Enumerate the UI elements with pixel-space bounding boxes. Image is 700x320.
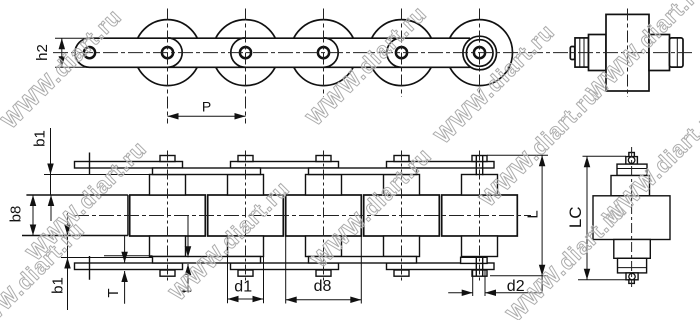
cotter tip bottom (629, 280, 635, 284)
inner plate strip (bottom) x308.5-416.5 (309, 257, 417, 264)
bottom-right vertical centerline (631, 147, 633, 287)
bushing at pin P4 (plan) (306, 175, 342, 196)
ring divider lines (580, 38, 678, 67)
right ring stack (670, 38, 684, 67)
pin P1 (plan, line) (89, 153, 91, 280)
d8 extension lines (286, 236, 362, 304)
left ring stack (575, 38, 589, 67)
L extension lines (487, 155, 548, 275)
right bushing (649, 35, 670, 71)
vertical centerline at pin P5 (401, 9, 403, 98)
inner plate strip (top) x152.5-260.5 (153, 168, 261, 175)
roller R4 (plan rect) (286, 195, 362, 236)
roller R3 (side view circle) (213, 20, 279, 86)
dimension h2 extension lines (55, 38, 89, 67)
top-right vertical centerline (627, 9, 629, 98)
roller R5 (side view circle) (369, 20, 435, 86)
cotter pin holes (628, 157, 635, 164)
T arrows (outer plate thickness) (124, 236, 126, 304)
top view: chain side elevation (135, 20, 513, 86)
roller R4 (side view circle) (291, 20, 357, 86)
svg-text:d8: d8 (314, 278, 332, 295)
pin P6 vertical centerline (plan) (479, 151, 481, 282)
bushing top (611, 176, 650, 196)
LC dimension line (586, 156, 588, 279)
svg-text:b8: b8 (7, 206, 24, 223)
bottom-right view: pin assembly cross-section (593, 153, 670, 284)
pin P2 cap bottom (plan) (160, 270, 175, 276)
pin P4 cap top (plan) (316, 156, 331, 162)
b1 bottom extension line (61, 257, 153, 259)
vertical centerline at pin P2 (167, 9, 169, 124)
pin P4 cap bottom (plan) (316, 270, 331, 276)
svg-text:LC: LC (566, 206, 585, 228)
bushing at pin P2 (plan) (150, 175, 186, 196)
pin P4 vertical centerline (plan) (323, 151, 325, 282)
bottom cap (626, 273, 638, 280)
washer plate at pin P6 (bottom) (461, 257, 488, 263)
bushing circle outer at pin 6 (463, 36, 497, 70)
bushing at pin P5 (plan) (384, 175, 420, 196)
cotter tip top (629, 153, 635, 158)
pin P3 cap top (plan) (238, 156, 253, 162)
svg-text:P: P (202, 99, 211, 115)
roller R6 (side view circle) (447, 20, 513, 86)
bottom view horizontal centerline (74, 215, 531, 217)
pin P6 ring (side view) (474, 47, 485, 58)
pin P4 ring (side view) (318, 47, 329, 58)
bushing at pin P6 (plan) (462, 175, 498, 196)
plate end cap arc at pin x=323.5 (324, 38, 339, 67)
pin P5 cap bottom (plan) (394, 270, 409, 276)
roller R6 (plan rect) (442, 195, 518, 236)
left end link bar (plan) (22, 195, 128, 236)
svg-text:T: T (105, 288, 122, 297)
b1 bottom line with arrows (67, 213, 69, 310)
pin P5 vertical centerline (plan) (401, 151, 403, 282)
pin P5 ring (side view) (396, 47, 407, 58)
pin P3 ring (side view) (240, 47, 251, 58)
plate end cap arc at pin x=167.5 (168, 38, 183, 67)
LC extension lines (578, 156, 626, 279)
d2 dimension line (448, 292, 542, 294)
plate end cap arc at pin x=245.5 (231, 38, 246, 67)
b1 top extension line (44, 174, 153, 176)
t extension line (104, 255, 153, 257)
d1 extension lines (228, 257, 264, 304)
outer plate strip (bottom) x386.5-494 (387, 263, 495, 270)
vertical centerline at pin P3 (245, 9, 247, 124)
washer divider lines (617, 169, 647, 268)
d1 dimension line (228, 298, 264, 300)
roller R3 (plan rect) (208, 195, 284, 236)
dimension P line (168, 115, 246, 117)
t arrows (inner plate thickness) (187, 216, 189, 292)
bushing bottom (614, 240, 651, 259)
top-right view: roller-bushing-pin assembly (570, 14, 683, 91)
svg-text:b1: b1 (49, 277, 66, 294)
pin P2 cap top (plan) (160, 156, 175, 162)
inner plate strip (bottom) x152.5-260.5 (153, 257, 261, 264)
svg-text:h2: h2 (34, 44, 51, 61)
bushing circle inner at pin 6 (466, 40, 493, 67)
outer plate strip (top) x386.5-494 (387, 162, 495, 169)
top cap (626, 157, 638, 165)
roller R2 (plan rect) (130, 195, 206, 236)
d8 dimension line (286, 299, 362, 301)
pin P5 cap top (plan) (394, 156, 409, 162)
washer pair bottom (618, 258, 647, 273)
roller R5 (plan rect) (364, 195, 440, 236)
pin P2 ring (side view) (162, 47, 173, 58)
roller (rect) (606, 14, 649, 91)
pin P6 cap top (plan) (472, 156, 487, 162)
left end cap of pin (570, 47, 575, 60)
plate end cap arc at pin x=401.5 (387, 38, 402, 67)
horizontal centerline of chain (full) (53, 52, 692, 54)
outer plate strip (bottom) x230.5-338.5 (231, 263, 339, 270)
roller R2 (side view circle) (135, 20, 201, 86)
pin P3 cap bottom (plan) (238, 270, 253, 276)
outer plate strip (top) x230.5-338.5 (231, 162, 339, 169)
inner plate strip (top) x308.5-416.5 (309, 168, 417, 175)
svg-text:b1: b1 (31, 130, 48, 147)
vertical centerline at pin P6 (479, 9, 481, 98)
roller (cross-section) (593, 196, 670, 240)
link plate band (side view) (75, 38, 470, 67)
pin P1 ring (side view) (84, 47, 95, 58)
dimension h2 arrow line (61, 38, 63, 67)
left bushing (589, 35, 607, 71)
pin P2 vertical centerline (plan) (167, 151, 169, 282)
svg-text:d1: d1 (234, 279, 252, 296)
pin P6 shaft edges (plan) (476, 156, 482, 277)
b1 top dimension line (50, 128, 53, 221)
vertical centerline at pin P4 (323, 9, 325, 98)
bushing at pin P3 (plan) (228, 175, 264, 196)
d2 extension lines (473, 271, 485, 297)
pin P3 vertical centerline (plan) (245, 151, 247, 282)
washer pair top (617, 164, 647, 175)
pin P6 cap bottom (plan) (472, 270, 487, 276)
outer plate strip (bottom) x74.5-182.5 (75, 263, 183, 270)
outer plate strip (top) x74.5-182.5 (75, 162, 183, 169)
svg-text:L: L (525, 210, 542, 218)
L dimension line (541, 155, 543, 292)
b8 dimension arrow (32, 195, 34, 236)
